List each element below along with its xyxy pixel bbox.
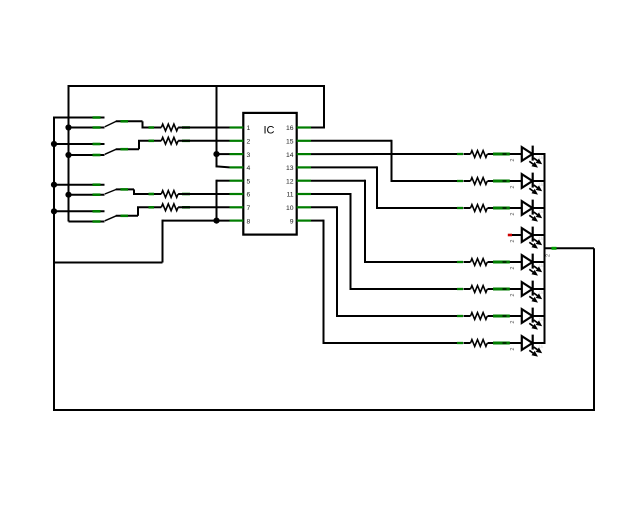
wire top supply rail [68, 85, 325, 87]
LED D2 light arrow 2 [529, 188, 537, 194]
switch S1 pole pin [121, 120, 129, 123]
switch S2 lever [105, 149, 117, 154]
switch S4 pole wire [116, 215, 138, 217]
svg-text:8: 8 [247, 218, 251, 225]
switch S2 upper contact wire [54, 143, 105, 145]
svg-text:10: 10 [286, 205, 294, 212]
svg-text:2: 2 [510, 267, 516, 270]
switch S1 lever [105, 121, 117, 127]
switch S2 upper contact pin [93, 143, 101, 146]
switch S1 lower contact pin [93, 126, 101, 129]
switch S2 lower contact wire [69, 154, 105, 156]
LED D4 triangle [522, 228, 533, 242]
switch S4 pole pin [121, 215, 129, 218]
resistor RL3 [471, 205, 488, 212]
wire lead gap RL8 [464, 342, 471, 344]
wire pin 5 to pin 8 link [217, 180, 230, 182]
wire R1 to pin 1 [178, 127, 229, 129]
wire R2 to pin 2 [178, 140, 229, 142]
LED D3 light arrow 1 [534, 212, 542, 218]
resistor RL6 right lead / LED anode pin [493, 288, 510, 291]
junction railB-S2 lower [65, 152, 71, 158]
wire lead gap RL6 [464, 288, 471, 290]
wire pin 10 to LED row 7 [311, 206, 337, 208]
LED D2 triangle [522, 174, 533, 188]
IC pin 5 stub [230, 180, 244, 182]
switch S2 output step [138, 141, 140, 149]
wire LED D6 cathode to bus [532, 288, 546, 290]
LED D6 cathode bar [532, 281, 534, 296]
svg-text:2: 2 [510, 348, 516, 351]
wire LED D7 cathode to bus [532, 315, 546, 317]
resistor R4 [161, 204, 178, 211]
IC pin 8 stub [230, 220, 244, 222]
wire RL3 to LED D3 [488, 207, 522, 209]
wire left outer rail (ground bus) [53, 118, 55, 412]
LED D1 light arrow 1 [534, 158, 542, 164]
wire pin 15 to LED row 2 [311, 140, 392, 142]
wire LED D5 cathode to bus [532, 261, 546, 263]
svg-text:1k: 1k [539, 317, 545, 322]
junction railB-S1 lower [65, 124, 71, 130]
IC pin 1 stub [230, 126, 244, 128]
wire anode stub D4 [512, 234, 522, 236]
wire left inner rail (switch lower-contact bus) [68, 86, 70, 222]
IC pin 9 stub [297, 220, 311, 222]
LED D7 cathode bar [532, 308, 534, 323]
LED D5 light arrow 2 [529, 269, 537, 275]
svg-text:2: 2 [510, 294, 516, 297]
LED D8 light arrow 1 [534, 347, 542, 353]
wire switch S4 output to resistor R4 [137, 206, 161, 208]
wire lead gap RL2 [464, 180, 471, 182]
resistor RL6 left lead [457, 288, 463, 290]
resistor RL5 left lead [457, 261, 463, 263]
svg-text:2: 2 [510, 186, 516, 189]
wire to pin 3 [217, 153, 230, 155]
wire pin 12 to LED row 5 [311, 180, 365, 182]
LED D4 light arrow 1 [534, 239, 542, 245]
wire RL5 to LED D5 [488, 261, 522, 263]
resistor RL1 left lead [457, 153, 463, 155]
junction railA-S2 upper [51, 141, 57, 147]
IC pin 7 stub [230, 206, 244, 208]
switch S1 upper contact pin [93, 116, 101, 119]
resistor RL7 right lead / LED anode pin [493, 315, 510, 318]
junction pin3 drop [213, 151, 219, 157]
wire R4 to pin 7 [178, 206, 229, 208]
switch S3 lever [105, 189, 117, 194]
switch S3 output step [133, 189, 135, 194]
wire to pin 4 [217, 166, 230, 167]
LED D2 light arrow 1 [534, 185, 542, 191]
resistor RL2 right lead / LED anode pin [493, 180, 510, 183]
svg-text:IC: IC [264, 125, 275, 137]
resistor R1 left lead [149, 126, 155, 129]
LED D8 triangle [522, 336, 533, 350]
LED D4 cathode bar [532, 227, 534, 242]
LED D3 light arrow 2 [529, 215, 537, 221]
svg-text:1k: 1k [539, 344, 545, 349]
LED D5 triangle [522, 255, 533, 269]
switch S3 upper contact pin [93, 183, 101, 186]
IC pin 12 stub [297, 180, 311, 182]
wire pin16 riser [323, 85, 325, 128]
wire LED D1 cathode to bus [532, 153, 546, 155]
switch S4 lower contact wire [69, 221, 105, 223]
resistor RL8 right lead / LED anode pin [493, 342, 510, 345]
svg-text:16: 16 [286, 125, 294, 132]
wire pin 8 to ground return [163, 220, 230, 222]
LED D5 cathode bar [532, 254, 534, 269]
resistor R4 left lead [149, 206, 155, 209]
resistor R1 [161, 124, 178, 131]
resistor R2 left lead [149, 140, 155, 143]
resistor R3 left lead [149, 193, 155, 196]
IC pin 4 stub [230, 166, 244, 168]
IC U1 body [243, 113, 296, 235]
switch S3 lower contact pin [93, 193, 101, 196]
LED D8 light arrow 2 [529, 350, 537, 356]
switch S4 lever [105, 216, 117, 221]
svg-text:1k: 1k [539, 209, 545, 214]
LED D3 cathode bar [532, 200, 534, 215]
wire LED D2 cathode to bus [532, 180, 546, 182]
svg-text:7: 7 [247, 205, 251, 212]
wire switch S1 output to resistor R1 [142, 127, 162, 129]
svg-text:2: 2 [510, 159, 516, 162]
switch S4 upper contact pin [93, 210, 101, 213]
switch S3 lower contact wire [69, 194, 105, 196]
svg-text:1: 1 [247, 125, 251, 132]
wire R3 to pin 6 [178, 193, 229, 195]
resistor R4 right lead [182, 206, 190, 209]
svg-text:2: 2 [510, 213, 516, 216]
svg-text:4: 4 [247, 165, 251, 172]
svg-text:6: 6 [247, 192, 251, 199]
resistor RL8 left lead [457, 342, 463, 344]
LED D6 light arrow 2 [529, 296, 537, 302]
wire RL7 to LED D7 [488, 315, 522, 317]
switch S1 pole wire [116, 120, 143, 122]
wire pin 14 to LED row 1 [311, 153, 457, 155]
svg-text:12: 12 [286, 178, 294, 185]
wire RL2 to LED D2 [488, 180, 522, 182]
wire LED bus to return [545, 247, 595, 249]
resistor RL7 left lead [457, 315, 463, 317]
switch S2 pole pin [121, 148, 129, 151]
resistor R2 [161, 137, 178, 144]
svg-text:5: 5 [247, 178, 251, 185]
svg-text:9: 9 [290, 218, 294, 225]
wire pin 11 to LED row 6 [311, 193, 351, 195]
IC pin 6 stub [230, 193, 244, 195]
wire lead gap RL5 [464, 261, 471, 263]
svg-text:2: 2 [247, 139, 251, 146]
wire lead gap RL7 [464, 315, 471, 317]
resistor RL7 [471, 313, 488, 320]
resistor RL1 right lead / LED anode pin [493, 153, 510, 156]
wire RL8 to LED D8 [488, 342, 522, 344]
IC pin 15 stub [297, 140, 311, 142]
svg-text:2: 2 [546, 254, 552, 257]
wire supply drop to pins 3 and 4 [216, 86, 218, 167]
LED D4 light arrow 2 [529, 242, 537, 248]
junction railA-S4 upper [51, 208, 57, 214]
switch S3 pole wire [116, 188, 134, 190]
IC pin 3 stub [230, 153, 244, 155]
IC pin 14 stub [297, 153, 311, 155]
IC pin 10 stub [297, 206, 311, 208]
wire RL1 to LED D1 [488, 153, 522, 155]
LED D1 cathode bar [532, 146, 534, 161]
LED D8 cathode bar [532, 335, 534, 350]
svg-text:1k: 1k [539, 236, 545, 241]
svg-text:3: 3 [247, 152, 251, 159]
resistor RL2 left lead [457, 180, 463, 182]
svg-text:1k: 1k [539, 290, 545, 295]
switch S1 lower contact wire [69, 127, 105, 129]
resistor RL2 [471, 178, 488, 185]
wire switch S3 output to resistor R3 [133, 193, 161, 195]
resistor RL1 [471, 151, 488, 158]
svg-text:13: 13 [286, 165, 294, 172]
switch S4 lower contact pin [93, 220, 101, 223]
LED D5 light arrow 1 [534, 266, 542, 272]
svg-text:2: 2 [510, 321, 516, 324]
IC pin 16 stub [297, 126, 311, 128]
svg-text:15: 15 [286, 139, 294, 146]
wire pin 13 to LED row 3 [311, 166, 377, 168]
wire lead gap RL3 [464, 207, 471, 209]
LED D1 light arrow 2 [529, 161, 537, 167]
switch S2 pole wire [116, 148, 139, 150]
LED D6 triangle [522, 282, 533, 296]
wire LED cathode bus [544, 154, 546, 343]
IC pin 2 stub [230, 140, 244, 142]
net stub on return wire [552, 247, 557, 250]
LED D4 unconnected anode pin [508, 234, 512, 237]
switch S3 upper contact wire [54, 184, 105, 186]
IC pin 11 stub [297, 193, 311, 195]
switch S4 output step [137, 207, 139, 216]
switch S1 output step [142, 121, 144, 127]
switch S1 upper contact wire [53, 117, 105, 119]
LED D7 light arrow 2 [529, 323, 537, 329]
wire LED D3 cathode to bus [532, 207, 546, 209]
LED D6 light arrow 1 [534, 293, 542, 299]
LED D7 light arrow 1 [534, 320, 542, 326]
svg-text:1k: 1k [539, 182, 545, 187]
wire LED D4 cathode to bus [532, 234, 546, 236]
resistor RL3 right lead / LED anode pin [493, 207, 510, 210]
switch S3 pole pin [121, 188, 129, 191]
svg-text:11: 11 [286, 192, 293, 199]
wire RL6 to LED D6 [488, 288, 522, 290]
junction railA-S3 upper [51, 182, 57, 188]
resistor R1 right lead [182, 126, 190, 129]
LED D3 triangle [522, 201, 533, 215]
junction pin8 link [213, 218, 219, 224]
resistor RL3 left lead [457, 207, 463, 209]
wire switch S2 output to resistor R2 [138, 140, 161, 142]
wire pin 9 to LED row 8 [311, 220, 324, 222]
LED D7 triangle [522, 309, 533, 323]
LED D1 triangle [522, 147, 533, 161]
resistor RL5 right lead / LED anode pin [493, 261, 510, 264]
resistor R2 right lead [182, 140, 190, 143]
svg-text:1k: 1k [539, 155, 545, 160]
switch S4 upper contact wire [54, 210, 105, 212]
wire right return riser [593, 248, 595, 410]
svg-text:2: 2 [510, 240, 516, 243]
wire bottom return [54, 409, 595, 411]
svg-text:14: 14 [286, 152, 294, 159]
junction railB-S3 lower [65, 192, 71, 198]
resistor R3 [161, 191, 178, 198]
wire LED D8 cathode to bus [532, 342, 546, 344]
resistor RL6 [471, 286, 488, 293]
wire lead gap RL1 [464, 153, 471, 155]
resistor RL8 [471, 340, 488, 347]
resistor RL5 [471, 259, 488, 266]
switch S2 lower contact pin [93, 154, 101, 157]
IC pin 13 stub [297, 166, 311, 168]
svg-text:1k: 1k [539, 263, 545, 268]
LED D2 cathode bar [532, 173, 534, 188]
resistor R3 right lead [182, 193, 190, 196]
